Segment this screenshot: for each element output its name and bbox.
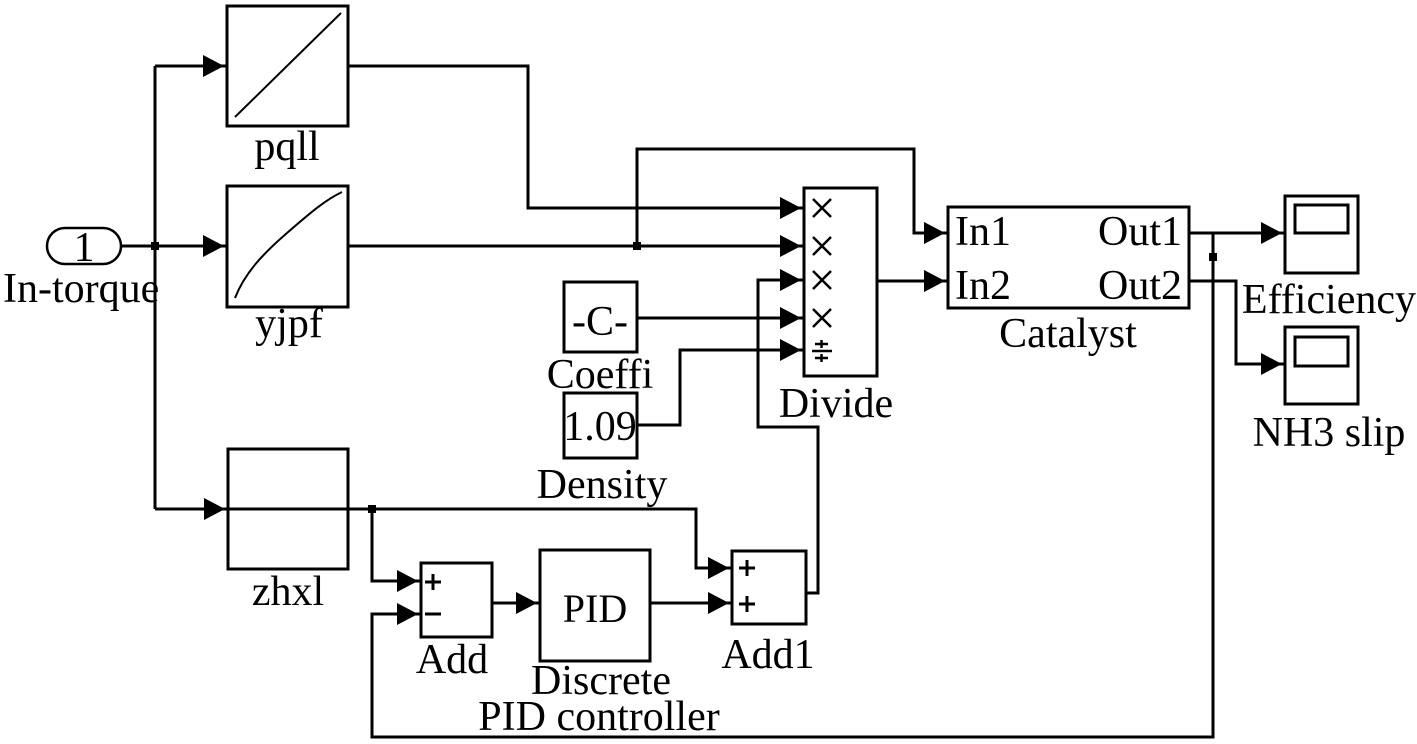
svg-text:Catalyst: Catalyst [999, 311, 1137, 357]
svg-text:pqll: pqll [254, 124, 319, 170]
svg-text:-C-: -C- [572, 299, 628, 345]
svg-text:In-torque: In-torque [3, 266, 159, 312]
svg-text:Divide: Divide [779, 381, 893, 427]
svg-text:PID controller: PID controller [478, 694, 719, 740]
svg-text:zhxl: zhxl [252, 569, 324, 615]
svg-text:Out2: Out2 [1098, 263, 1182, 309]
svg-text:Add1: Add1 [721, 632, 814, 678]
svg-text:1: 1 [74, 225, 95, 271]
svg-text:Out1: Out1 [1098, 209, 1182, 255]
svg-text:yjpf: yjpf [255, 301, 323, 347]
svg-text:Efficiency: Efficiency [1242, 277, 1416, 323]
svg-text:NH3 slip: NH3 slip [1253, 410, 1406, 456]
svg-text:Coeffi: Coeffi [547, 352, 654, 398]
svg-text:1.09: 1.09 [563, 404, 637, 450]
svg-text:Add: Add [416, 637, 488, 683]
svg-text:In2: In2 [955, 263, 1011, 309]
svg-text:In1: In1 [955, 209, 1011, 255]
svg-text:Density: Density [537, 462, 668, 508]
svg-text:PID: PID [563, 586, 627, 631]
